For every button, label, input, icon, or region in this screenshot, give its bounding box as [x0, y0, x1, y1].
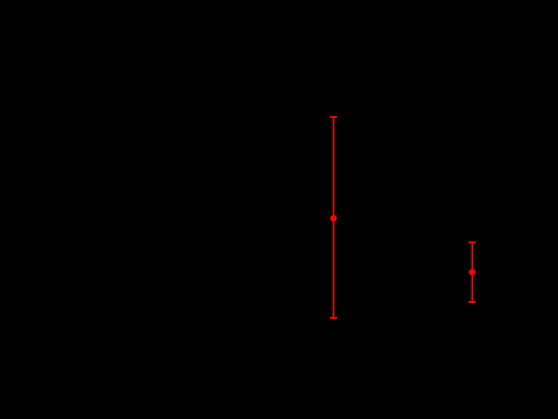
- error bar 1 top cap: [330, 116, 337, 118]
- error bar 2 vertical line: [471, 242, 473, 302]
- error bar 2 top cap: [469, 241, 476, 243]
- error bar 1 bottom cap: [330, 317, 337, 319]
- error bar 2 bottom cap: [469, 301, 476, 303]
- error bar 2 marker: [469, 269, 476, 276]
- error bar 1 vertical line: [333, 117, 335, 318]
- error bar 1 marker: [330, 215, 337, 222]
